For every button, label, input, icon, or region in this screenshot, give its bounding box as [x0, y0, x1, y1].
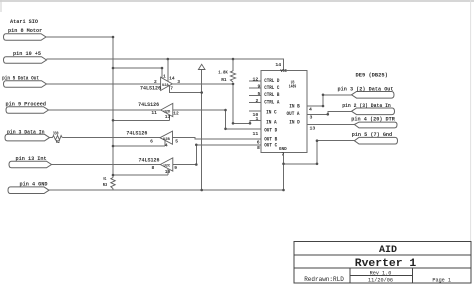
- svg-text:13: 13: [310, 126, 316, 132]
- svg-text:2: 2: [256, 98, 259, 104]
- junction: motor corner: [112, 36, 115, 39]
- wire: IN C stub: [249, 110, 261, 112]
- wire: R3 top stub: [112, 175, 114, 178]
- svg-text:8: 8: [152, 165, 155, 171]
- svg-text:DE9 (DB25): DE9 (DB25): [356, 73, 388, 79]
- junction: U2A out/R1: [232, 83, 235, 86]
- svg-text:IN B: IN B: [289, 103, 300, 109]
- op-amp buffer U2C 74LS126: [160, 158, 173, 171]
- op-amp buffer U2A 74LS126: [161, 77, 173, 90]
- svg-text:pin 2 (3) Data In: pin 2 (3) Data In: [342, 103, 391, 109]
- connector tag pin 5 Data Out: [4, 81, 47, 88]
- svg-text:13: 13: [165, 114, 171, 120]
- wire: U2D input rail: [173, 109, 226, 111]
- svg-text:Redrawn:RLD: Redrawn:RLD: [304, 276, 344, 283]
- connector tag pin 4 GND: [8, 187, 49, 194]
- wire: U2B enable pin 4: [164, 140, 166, 146]
- wire: ground vertical under arrow: [201, 70, 203, 191]
- wire: Proceed line U2D output: [49, 109, 161, 111]
- svg-text:pin 13 Int: pin 13 Int: [16, 156, 47, 162]
- connector tag pin 3 Data In: [5, 134, 50, 141]
- wire: Motor bus to U2C enable: [113, 174, 168, 176]
- wire: U2A enable branch: [113, 67, 162, 69]
- svg-text:pin 4 GND: pin 4 GND: [20, 182, 48, 188]
- svg-text:14: 14: [275, 62, 281, 68]
- wire: IC GND pin 7 drop: [283, 152, 285, 190]
- wire: U2D enable pin 13: [169, 115, 171, 121]
- wire: GND rail: [49, 189, 284, 191]
- resistor R3 91 zigzag: [111, 178, 115, 189]
- svg-text:12: 12: [173, 110, 179, 116]
- svg-text:U2C: U2C: [164, 165, 172, 169]
- svg-text:1.8K: 1.8K: [218, 69, 228, 75]
- svg-text:330: 330: [53, 131, 59, 137]
- svg-text:OUT A: OUT A: [287, 111, 301, 117]
- svg-text:IN C: IN C: [266, 109, 277, 115]
- svg-text:AID: AID: [379, 245, 397, 256]
- svg-text:5: 5: [258, 91, 261, 97]
- wire: U2C input riser to OUT C: [173, 145, 261, 165]
- wire: U2B input to OUT B: [173, 138, 262, 140]
- wire: IN B to DE9 Data Out: [307, 95, 351, 106]
- svg-text:9: 9: [258, 84, 261, 90]
- junction: Gnd tag corner upper: [316, 139, 319, 142]
- svg-text:11: 11: [151, 110, 157, 116]
- svg-text:CTRL A: CTRL A: [264, 99, 280, 105]
- junction: +5/U2A VCC: [167, 58, 170, 61]
- wire: R1 node down to IN A: [233, 84, 261, 123]
- connector tag pin 10 +5: [4, 57, 47, 64]
- power arrow symbol: [198, 64, 205, 69]
- connector tag DE9 pin 3 Data Out: [352, 92, 395, 99]
- op-amp buffer U2D 74LS126: [161, 103, 173, 116]
- junction: motor/U2A enable: [112, 67, 115, 70]
- svg-text:Atari SIO: Atari SIO: [10, 19, 38, 25]
- svg-text:VCC: VCC: [280, 69, 287, 74]
- resistor R1 1.8K zigzag: [230, 71, 235, 82]
- svg-text:3: 3: [177, 79, 180, 85]
- svg-text:pin 3 Data In: pin 3 Data In: [7, 130, 45, 136]
- wire: U2D enable branch: [113, 119, 170, 121]
- svg-text:3: 3: [310, 115, 313, 121]
- wire: OUT D drop: [226, 110, 262, 129]
- IC U3 1489 box: [261, 70, 307, 152]
- wire: Motor net horizontal from tag: [46, 36, 113, 38]
- svg-text:4: 4: [309, 107, 312, 113]
- svg-text:CTRL C: CTRL C: [264, 85, 279, 91]
- junction: IC GND branch: [282, 163, 285, 166]
- wire: U2A VCC pin 14: [167, 59, 169, 81]
- connector tag DE9 pin 5 Gnd: [354, 137, 397, 144]
- svg-text:IN A: IN A: [266, 120, 277, 126]
- svg-text:OUT B: OUT B: [264, 136, 277, 142]
- svg-text:pin 5 (7) Gnd: pin 5 (7) Gnd: [352, 132, 392, 138]
- junction: OUT D corner: [224, 128, 227, 131]
- svg-text:IN D: IN D: [289, 120, 300, 126]
- junction: OUT C corner: [195, 144, 198, 147]
- op-amp buffer U2B 74LS126: [160, 131, 173, 144]
- wire: U2A enable pin 1: [161, 68, 163, 78]
- wire: U2A output to R1 node: [172, 83, 233, 85]
- svg-text:8: 8: [257, 145, 260, 151]
- connector tag DE9 pin 4 DTR: [354, 122, 397, 128]
- svg-text:91: 91: [103, 176, 106, 182]
- junction: motor/U2B enable: [112, 145, 115, 148]
- junction: U2C input: [195, 163, 198, 166]
- connector tag pin 9 Proceed: [6, 107, 49, 114]
- junction: IN A jog: [249, 122, 252, 125]
- svg-text:9: 9: [174, 165, 177, 171]
- svg-text:pin 10 +5: pin 10 +5: [13, 51, 41, 57]
- svg-text:pin 9 Proceed: pin 9 Proceed: [6, 101, 46, 107]
- junction: IN B corner upper: [322, 94, 325, 97]
- junction: U2A GND: [200, 91, 203, 94]
- svg-text:6: 6: [150, 138, 153, 144]
- connector tag DE9 pin 2 Data In: [352, 108, 395, 115]
- svg-text:R2: R2: [56, 139, 60, 145]
- svg-text:1489: 1489: [289, 84, 297, 90]
- svg-text:pin 4 (20) DTR: pin 4 (20) DTR: [351, 116, 395, 122]
- wire: R2 left stub: [50, 137, 53, 139]
- svg-text:11: 11: [253, 131, 259, 137]
- wire: Data In line R2 to U2B output: [62, 137, 160, 139]
- junction: Gnd tag corner lower: [316, 163, 319, 166]
- svg-text:1: 1: [163, 74, 166, 80]
- IC VCC pin 14 wire: [283, 59, 285, 70]
- svg-text:11/20/06: 11/20/06: [368, 278, 393, 284]
- junction: OUT A corner: [327, 113, 330, 116]
- wire: Motor enable bus vertical: [112, 37, 114, 175]
- svg-text:14: 14: [169, 76, 175, 82]
- wire: CTRL B stub: [249, 94, 261, 96]
- junction: U2D in/OUT D: [224, 109, 227, 112]
- svg-text:2: 2: [154, 79, 157, 85]
- junction: +5/R1: [232, 58, 235, 61]
- wire: +5 rail: [47, 59, 284, 70]
- junction: GND rail end: [282, 189, 285, 192]
- title block: [294, 242, 471, 284]
- wire: IN D to DE9 DTR: [307, 124, 354, 126]
- svg-text:U2D: U2D: [164, 110, 172, 114]
- svg-text:7: 7: [170, 86, 173, 92]
- wire: R1 top stub: [232, 59, 234, 71]
- svg-text:10: 10: [165, 169, 171, 175]
- wire: CTRL C stub: [249, 87, 261, 89]
- junction: motor/U2D enable: [112, 119, 115, 122]
- wire: CTRL A stub: [249, 102, 261, 104]
- svg-text:74LS126: 74LS126: [138, 102, 159, 108]
- svg-text:74LS126: 74LS126: [140, 85, 161, 91]
- svg-text:5: 5: [175, 138, 178, 144]
- wire: R3 bottom stub: [112, 189, 114, 191]
- wire: OUT A to DE9 Data In: [307, 111, 351, 114]
- svg-text:4: 4: [165, 142, 168, 148]
- svg-text:R3: R3: [103, 182, 107, 188]
- svg-text:7: 7: [281, 152, 284, 158]
- svg-text:CTRL B: CTRL B: [264, 92, 279, 98]
- wire: U2C enable pin 10: [167, 169, 169, 175]
- svg-text:pin 8 Motor: pin 8 Motor: [8, 28, 42, 34]
- svg-text:Rverter 1: Rverter 1: [355, 258, 417, 270]
- svg-text:1: 1: [256, 116, 259, 122]
- svg-text:U2B: U2B: [163, 138, 171, 142]
- svg-text:74LS126: 74LS126: [126, 130, 147, 136]
- connector tag pin 8 Motor: [4, 34, 47, 41]
- junction: IN B corner lower: [322, 105, 325, 108]
- svg-text:pin 5 Data Out: pin 5 Data Out: [2, 75, 39, 81]
- svg-text:74LS126: 74LS126: [139, 157, 160, 163]
- svg-text:CTRL D: CTRL D: [264, 78, 279, 84]
- wire: Int line U2C output: [52, 164, 161, 166]
- connector tag pin 13 Int: [9, 161, 52, 168]
- svg-text:OUT C: OUT C: [264, 143, 277, 149]
- wire: U2A GND pin 7: [170, 85, 202, 92]
- junction: GND rail/vertical: [200, 189, 203, 192]
- svg-text:6: 6: [257, 139, 260, 145]
- junction: IN A corner: [232, 122, 235, 125]
- wire: GND to DE9 Gnd tag: [284, 141, 355, 164]
- svg-text:U2A: U2A: [162, 84, 170, 88]
- junction: motor/R3: [112, 174, 115, 177]
- svg-text:pin 3 (2) Data Out: pin 3 (2) Data Out: [338, 87, 394, 93]
- wire: U2B enable branch: [113, 145, 165, 147]
- svg-text:12: 12: [253, 77, 259, 83]
- svg-text:OUT D: OUT D: [264, 127, 277, 133]
- svg-text:GND: GND: [279, 147, 287, 152]
- junction: U2A enable top: [161, 67, 164, 70]
- svg-text:Rev 1.0: Rev 1.0: [370, 270, 392, 276]
- svg-text:R1: R1: [221, 77, 227, 83]
- resistor R2 330 zigzag: [52, 136, 62, 140]
- wire: pin 5 Data Out to U2A input: [47, 83, 161, 85]
- wire: CTRL D stub: [249, 80, 261, 82]
- svg-text:Page 1: Page 1: [432, 277, 451, 283]
